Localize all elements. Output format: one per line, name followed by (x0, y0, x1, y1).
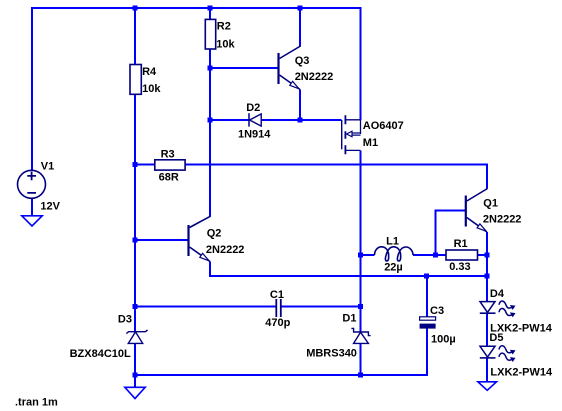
svg-text:1N914: 1N914 (238, 128, 271, 140)
svg-text:D2: D2 (246, 102, 260, 114)
svg-text:Q3: Q3 (295, 55, 310, 67)
svg-text:0.33: 0.33 (449, 261, 470, 273)
svg-text:L1: L1 (386, 236, 399, 248)
svg-text:D1: D1 (342, 313, 356, 325)
svg-text:AO6407: AO6407 (363, 120, 404, 132)
svg-text:68R: 68R (159, 172, 179, 184)
svg-text:2N2222: 2N2222 (295, 71, 334, 83)
svg-text:C3: C3 (430, 305, 444, 317)
svg-text:Q1: Q1 (483, 197, 498, 209)
svg-text:LXK2-PW14: LXK2-PW14 (490, 366, 553, 378)
svg-text:MBRS340: MBRS340 (306, 348, 357, 360)
svg-text:100µ: 100µ (431, 333, 456, 345)
svg-text:BZX84C10L: BZX84C10L (70, 348, 131, 360)
svg-text:C1: C1 (270, 289, 284, 301)
svg-text:2N2222: 2N2222 (483, 213, 522, 225)
svg-text:10k: 10k (142, 83, 161, 95)
svg-text:V1: V1 (41, 161, 54, 173)
svg-text:470p: 470p (265, 317, 290, 329)
svg-text:Q2: Q2 (207, 227, 222, 239)
svg-text:R2: R2 (217, 21, 231, 33)
svg-text:R3: R3 (161, 149, 175, 161)
svg-text:22µ: 22µ (384, 262, 403, 274)
svg-text:M1: M1 (363, 137, 378, 149)
svg-text:.tran 1m: .tran 1m (15, 397, 58, 409)
svg-text:12V: 12V (40, 201, 60, 213)
svg-text:D4: D4 (490, 288, 505, 300)
svg-text:D3: D3 (118, 313, 132, 325)
svg-text:2N2222: 2N2222 (206, 244, 245, 256)
svg-text:R1: R1 (454, 238, 468, 250)
svg-text:D5: D5 (489, 332, 503, 344)
svg-text:10k: 10k (216, 39, 235, 51)
svg-text:R4: R4 (142, 66, 157, 78)
